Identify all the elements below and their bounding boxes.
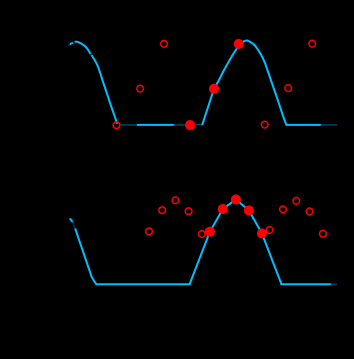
- top subplot: left partial pulse, faint gap near apex: [73, 41, 75, 44]
- bottom subplot: triangle pulse (linear interp through samples): [190, 199, 282, 284]
- bottom subplot: baseline right faint tail: [331, 283, 336, 285]
- top subplot: baseline bright segment: [138, 124, 174, 126]
- bottom subplot: start bright dash: [70, 219, 73, 222]
- top subplot: baseline faint segment after open circle: [121, 124, 137, 126]
- bottom subplot: open circles (right five): [266, 198, 326, 238]
- top subplot: left partial pulse, descent (bright): [76, 42, 92, 55]
- top subplot: left partial pulse, dim lead-in: [69, 43, 71, 46]
- top subplot: open circles (right trio): [261, 40, 315, 128]
- top subplot: main bell falling edge: [248, 41, 287, 125]
- top subplot: filled sample dots: [185, 39, 244, 130]
- top subplot: baseline faint segment before filled dot: [175, 124, 186, 126]
- top subplot: baseline right bright: [286, 124, 321, 126]
- bottom subplot: left descent bright: [75, 229, 96, 284]
- bottom subplot: baseline right bright: [281, 283, 331, 285]
- bottom subplot: filled sample dots: [205, 194, 267, 238]
- top subplot: main bell rising edge: [202, 41, 247, 125]
- top subplot: faint gap on descent: [91, 54, 92, 55]
- top subplot: baseline right faint tail: [321, 124, 336, 126]
- top subplot: baseline faint segment after filled dot: [196, 124, 203, 126]
- bottom subplot: baseline left: [96, 283, 190, 285]
- bottom subplot: open circles (left five): [146, 197, 206, 237]
- top subplot: left partial pulse, bright apex dash: [71, 43, 74, 44]
- top subplot: open circles (left trio): [113, 40, 167, 128]
- bottom subplot: faint gap on descent: [73, 222, 75, 229]
- top subplot: left partial pulse, lower descent (bright): [92, 56, 117, 123]
